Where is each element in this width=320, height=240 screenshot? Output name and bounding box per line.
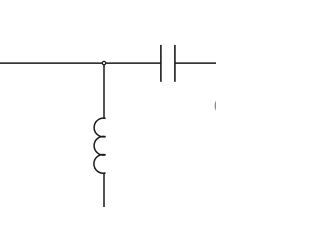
- capacitor C1: [161, 45, 175, 82]
- node A (junction dot): [102, 61, 105, 64]
- wire: inductor to bottom edge: [103, 173, 105, 207]
- inductor L1: [94, 118, 106, 173]
- wire: node to capacitor: [104, 62, 161, 64]
- wire: capacitor to right edge: [175, 62, 216, 64]
- wire: left horizontal segment: [0, 62, 104, 64]
- label C (cut off at right edge): [215, 101, 216, 111]
- wire: node down to inductor: [103, 63, 105, 119]
